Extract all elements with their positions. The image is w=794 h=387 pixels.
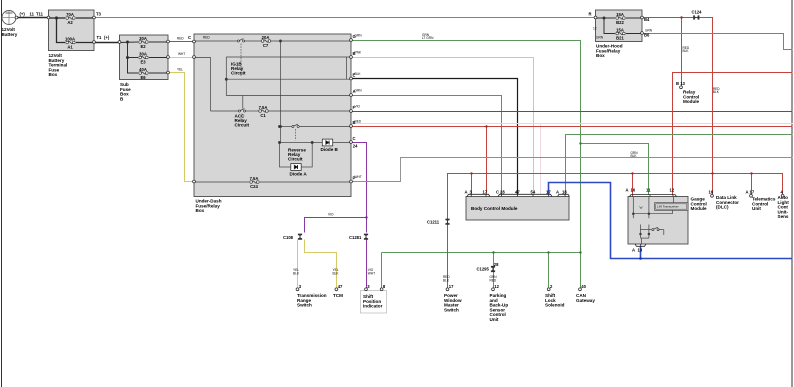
svg-text:C24: C24	[250, 184, 258, 189]
svg-text:BLK: BLK	[293, 271, 300, 275]
svg-text:B22: B22	[616, 20, 624, 25]
wire gray P pin to right edge	[352, 158, 793, 182]
svg-text:RED: RED	[203, 36, 210, 40]
wire green BCM A18 up and right	[566, 135, 793, 195]
svg-text:WHT: WHT	[368, 271, 375, 275]
page border left	[1, 0, 3, 387]
fuse A1 100A	[66, 41, 75, 44]
svg-text:40: 40	[581, 284, 586, 289]
wire green CAN bus horizontal	[382, 252, 581, 254]
under-dash internal: top row C to G with IG1B contact and fuse C7	[195, 40, 238, 42]
fuse B22 15A	[616, 17, 625, 20]
wire red sub fuse to under-dash C	[169, 41, 195, 43]
faint variant wire pink	[352, 123, 793, 125]
component terminal pins bottom row	[296, 86, 784, 291]
wire green under-hood out to right edge	[643, 34, 793, 50]
svg-text:C: C	[188, 35, 191, 40]
svg-text:RED: RED	[355, 120, 362, 124]
BCM pin labels	[465, 189, 568, 194]
wire T3 red to under-hood box	[95, 17, 596, 19]
svg-text:12: 12	[494, 284, 499, 289]
connector C128	[364, 234, 368, 240]
bottom component pin numbers	[299, 284, 587, 289]
fuse C7 20A	[261, 40, 270, 43]
svg-text:R: R	[589, 11, 592, 16]
fuse C24 7.5A	[250, 181, 259, 184]
IG1B relay contact	[237, 39, 244, 42]
gauge pin labels	[626, 188, 675, 253]
ACC row	[211, 110, 239, 112]
svg-text:A2: A2	[67, 20, 73, 25]
svg-text:RED: RED	[177, 36, 184, 40]
wire red branch down to BCM 17	[486, 127, 488, 195]
svg-text:BLK: BLK	[713, 90, 720, 94]
svg-text:16: 16	[631, 188, 636, 193]
IG1B relay rows to pink, black, green pins	[226, 56, 351, 58]
wire green bus to shift lock solenoid	[548, 253, 550, 289]
svg-text:VIO: VIO	[328, 213, 334, 217]
wire red to telematics	[751, 174, 753, 196]
svg-text:E6: E6	[140, 75, 146, 80]
svg-text:PNK: PNK	[355, 51, 362, 55]
svg-text:E3: E3	[140, 59, 146, 64]
svg-text:17: 17	[449, 284, 454, 289]
svg-text:C1281: C1281	[349, 235, 362, 240]
connector C108	[298, 234, 302, 240]
wire gray sub fuse to under-dash	[169, 57, 195, 59]
wire red to BCM 3	[471, 174, 473, 195]
svg-text:12: 12	[670, 188, 675, 193]
svg-text:28: 28	[500, 189, 505, 194]
row from reverse box to C pin via diode B	[313, 142, 323, 144]
svg-text:YEL: YEL	[177, 68, 183, 72]
svg-text:17: 17	[546, 189, 551, 194]
svg-text:E2: E2	[140, 44, 146, 49]
svg-text:T3: T3	[96, 11, 102, 16]
reverse relay circuit box	[280, 143, 313, 168]
Sub Fuse Box B	[120, 35, 169, 80]
wire red to right edge with branch to BCM 17	[352, 126, 793, 128]
svg-text:T11: T11	[36, 11, 44, 16]
wire yellow C108 to transmission range switch	[297, 240, 299, 289]
svg-text:A: A	[556, 189, 559, 194]
wire battery to terminal fuse box	[17, 17, 50, 19]
svg-text:BLK: BLK	[443, 278, 450, 282]
fuse A2 70A	[66, 17, 75, 20]
wire green bus to shift position indicator	[381, 253, 383, 289]
svg-text:A: A	[465, 189, 468, 194]
svg-text:A: A	[632, 248, 635, 253]
svg-text:BLK: BLK	[333, 271, 340, 275]
svg-text:GRN: GRN	[645, 28, 653, 32]
svg-text:18: 18	[562, 189, 567, 194]
wire purple branch to C108	[305, 218, 367, 233]
ACC relay contact	[238, 109, 245, 112]
svg-text:GRN: GRN	[596, 36, 604, 40]
connector C124	[693, 15, 699, 19]
svg-text:15A: 15A	[616, 27, 624, 32]
svg-text:C7: C7	[263, 43, 269, 48]
svg-text:Diode B: Diode B	[321, 147, 339, 152]
wire red to gauge A16	[632, 174, 634, 195]
svg-text:Gateway: Gateway	[576, 298, 595, 303]
fuse value labels	[65, 12, 625, 189]
svg-text:28: 28	[494, 262, 499, 267]
BCM connector bar A	[467, 194, 570, 196]
fuse B21 15A	[616, 32, 625, 35]
svg-text:11: 11	[646, 188, 651, 193]
svg-text:Unit: Unit	[490, 317, 499, 322]
svg-text:40A: 40A	[139, 67, 147, 72]
svg-text:C1: C1	[260, 113, 266, 118]
svg-text:11: 11	[30, 11, 35, 16]
svg-text:(+): (+)	[104, 35, 110, 40]
wire purple below C128 connector	[366, 240, 368, 289]
svg-text:C108: C108	[283, 235, 294, 240]
svg-text:TCM: TCM	[333, 293, 343, 298]
svg-text:30A: 30A	[139, 36, 147, 41]
svg-text:RED: RED	[490, 278, 497, 282]
svg-text:Circuit: Circuit	[288, 157, 303, 162]
svg-text:WHT: WHT	[178, 52, 185, 56]
svg-text:13: 13	[638, 248, 643, 253]
wire blue gauge A13 down	[640, 247, 642, 259]
tiny wire code labels	[177, 27, 720, 283]
svg-text:LT GRN: LT GRN	[422, 36, 434, 40]
svg-text:Sens: Sens	[778, 214, 789, 219]
fuse E6 40A	[139, 72, 148, 75]
diode B	[322, 139, 332, 146]
Under-Dash Fuse/Relay Box	[194, 34, 351, 197]
sub fuse box internal wiring	[120, 42, 169, 73]
svg-text:C1295: C1295	[477, 267, 490, 272]
svg-text:T1: T1	[97, 35, 103, 40]
svg-text:BLK: BLK	[631, 154, 638, 158]
svg-text:16: 16	[709, 190, 714, 195]
fuse C1 7.5A	[259, 110, 268, 113]
svg-text:Diode A: Diode A	[290, 172, 308, 177]
svg-text:24: 24	[353, 144, 358, 149]
gauge connector bar	[630, 195, 677, 247]
svg-text:30A: 30A	[139, 51, 147, 56]
wire green bus to parking sensor	[493, 253, 495, 289]
svg-text:Box: Box	[596, 53, 605, 58]
svg-text:(+): (+)	[20, 11, 26, 16]
wire red y72 to right edge and down to gauge 12	[673, 73, 793, 195]
svg-text:(DLC): (DLC)	[716, 205, 729, 210]
svg-text:A 17: A 17	[746, 190, 755, 195]
svg-text:Box: Box	[196, 208, 205, 213]
IG1B feed down to ACC contact	[242, 96, 244, 109]
wire red main feed y173	[448, 174, 783, 289]
wire yellow C108 to TCM	[305, 240, 337, 289]
connector C1211	[445, 219, 449, 225]
12Volt Battery Terminal Fuse Box	[49, 10, 95, 51]
wire violet F pin to right edge	[352, 111, 793, 113]
svg-text:GRN: GRN	[355, 89, 363, 93]
Under-Hood Fuse/Relay Box	[596, 10, 643, 42]
box edge pin marks	[15, 16, 643, 183]
page border right	[791, 0, 793, 387]
wire black to BCM 47	[352, 79, 518, 195]
svg-text:Module: Module	[691, 206, 708, 211]
svg-text:Solenoid: Solenoid	[545, 303, 565, 308]
svg-text:20A: 20A	[262, 35, 270, 40]
wire green G pin to CAN vertical and gateway	[352, 41, 581, 289]
svg-text:Box: Box	[49, 72, 58, 77]
terminal fuse box internal wiring	[49, 18, 95, 43]
wire purple C pin down to shift position indicator	[352, 143, 367, 233]
svg-text:Body Control Module: Body Control Module	[471, 206, 518, 211]
svg-text:GRN: GRN	[355, 34, 363, 38]
junction dots	[579, 142, 581, 144]
svg-text:54: 54	[531, 189, 536, 194]
fuse E3 30A	[139, 56, 148, 59]
svg-text:Indicator: Indicator	[363, 304, 383, 309]
svg-text:LIN Transceiver: LIN Transceiver	[657, 204, 679, 208]
svg-text:A1: A1	[67, 44, 73, 49]
fuse E2 30A	[139, 41, 148, 44]
Shift Position Indicator outline	[361, 291, 387, 314]
svg-text:Battery: Battery	[2, 32, 18, 37]
svg-text:15A: 15A	[616, 12, 624, 17]
svg-text:70A: 70A	[66, 12, 74, 17]
wire blue BCM 17 to right edge	[549, 183, 793, 259]
wire T1 terminal box to sub fuse box	[95, 42, 121, 44]
svg-text:B4: B4	[644, 17, 650, 22]
svg-text:Switch: Switch	[297, 303, 312, 308]
svg-text:C: C	[353, 136, 356, 141]
svg-text:C124: C124	[692, 10, 703, 15]
svg-text:VIO: VIO	[355, 105, 361, 109]
under-hood fuse box internal wiring	[596, 18, 643, 34]
svg-text:100A: 100A	[65, 36, 75, 41]
svg-text:BLK: BLK	[683, 49, 690, 53]
svg-text:17: 17	[483, 189, 488, 194]
svg-text:Switch: Switch	[444, 307, 459, 312]
svg-text:7.5A: 7.5A	[250, 176, 259, 181]
svg-text:C1211: C1211	[427, 219, 440, 224]
wire red under-hood out to C124 and down to DLC	[643, 18, 713, 196]
wire yellow sub fuse to under-dash bottom	[169, 73, 195, 182]
battery 12V	[2, 11, 16, 25]
svg-text:B6: B6	[644, 33, 650, 38]
wire green branch to gauge pin 11	[581, 144, 649, 195]
connector C1295	[491, 266, 495, 272]
reverse relay feed vertical	[280, 41, 282, 143]
svg-text:12: 12	[593, 27, 597, 31]
under-dash internal: pin2 wiring	[195, 58, 211, 112]
svg-text:7.5A: 7.5A	[259, 105, 268, 110]
svg-text:Circuit: Circuit	[235, 123, 250, 128]
svg-text:47: 47	[338, 284, 343, 289]
wire green to BCM 28	[352, 96, 502, 195]
svg-text:Module: Module	[683, 99, 700, 104]
wire red branch to relay control module B13	[681, 18, 683, 87]
diode A	[291, 164, 301, 171]
svg-text:B21: B21	[616, 35, 624, 40]
Body Control Module box	[466, 197, 569, 221]
svg-text:C: C	[496, 189, 499, 194]
svg-text:47: 47	[515, 189, 520, 194]
svg-text:B 13: B 13	[676, 81, 686, 86]
wire pink to BCM 54	[352, 58, 534, 195]
svg-text:WHT: WHT	[355, 175, 362, 179]
row to red pin with reverse contact	[281, 126, 292, 128]
svg-text:A: A	[626, 188, 629, 193]
svg-text:Circuit: Circuit	[231, 71, 246, 76]
svg-text:BLK: BLK	[355, 72, 362, 76]
svg-text:Unit: Unit	[752, 206, 761, 211]
bottom row with fuse C24	[195, 181, 250, 183]
Gauge Control Module box	[628, 197, 688, 245]
gauge control module internals	[655, 203, 689, 211]
